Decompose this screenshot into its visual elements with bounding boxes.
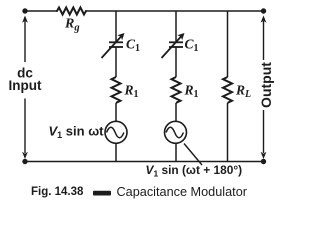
Output arrow (right rail, double-headed) — [261, 16, 267, 160]
dc Input arrow (left rail, double-headed) — [22, 16, 28, 160]
wire branch3 top lead — [227, 11, 229, 77]
svg-text:V1 sin (ωt + 180°): V1 sin (ωt + 180°) — [146, 163, 243, 179]
ac source V1 sin(wt+180) (branch 2) — [165, 121, 187, 143]
svg-text:Capacitance Modulator: Capacitance Modulator — [117, 185, 248, 199]
resistor R1 (branch 1) — [112, 77, 121, 103]
node D (bottom-right junction dot) — [261, 159, 266, 164]
wire branch3 bottom lead — [227, 103, 229, 162]
node B (bottom-left junction dot) — [22, 159, 27, 164]
wire branch1 lower lead — [115, 103, 117, 121]
wire branch1 top lead — [115, 11, 117, 42]
wire leader line to label — [184, 144, 202, 166]
wire bottom rail — [25, 161, 264, 163]
resistor RL — [223, 77, 232, 103]
caption separator bar — [93, 191, 111, 196]
capacitor C1 (branch 2, variable) — [162, 36, 184, 58]
svg-text:Input: Input — [9, 78, 42, 93]
svg-text:V1 sin ωt: V1 sin ωt — [49, 124, 105, 141]
node A (top-left junction dot) — [22, 8, 27, 13]
wire branch2 bottom lead — [175, 143, 177, 161]
node C (top-right junction dot) — [261, 8, 266, 13]
wire branch2 lower lead — [175, 103, 177, 121]
svg-text:Output: Output — [258, 62, 274, 108]
svg-text:Fig. 14.38: Fig. 14.38 — [31, 186, 84, 198]
wire branch2 mid lead — [175, 48, 177, 78]
wire top rail right of Rg — [86, 10, 264, 12]
wire branch2 top lead — [175, 11, 177, 42]
wire top rail left of Rg — [25, 10, 57, 12]
ac source V1 sin wt (branch 1) — [105, 121, 127, 143]
wire branch1 mid lead — [115, 48, 117, 78]
resistor Rg — [57, 8, 86, 15]
wire branch1 bottom lead — [115, 143, 117, 161]
capacitor C1 (branch 1, variable) — [102, 36, 124, 58]
resistor R1 (branch 2) — [172, 77, 181, 103]
